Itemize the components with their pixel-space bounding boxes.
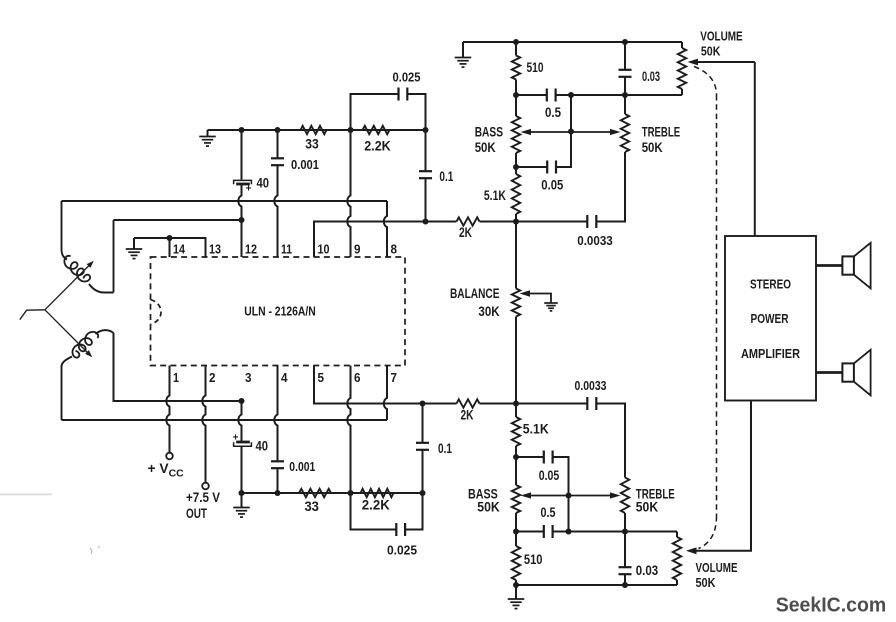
svg-text:30K: 30K	[478, 304, 499, 319]
dashed gang line between volume controls	[694, 67, 717, 96]
svg-text:6: 6	[354, 370, 361, 385]
junction dots bottom bus	[239, 490, 245, 496]
potentiometer BASS 50K (bottom)	[515, 457, 517, 485]
svg-text:2K: 2K	[461, 408, 474, 423]
potentiometer VOLUME 50K (bottom)	[676, 532, 678, 538]
ground bottom tone rail	[515, 585, 517, 599]
wire C: upper coil to pin 8 (left channel input)	[62, 200, 388, 202]
svg-text:1: 1	[173, 370, 179, 385]
speaker SP1 (top)	[816, 264, 843, 267]
ground at pins 13/14	[133, 238, 135, 249]
resistor R3 2K (top)	[457, 217, 480, 225]
svg-text:50K: 50K	[701, 44, 721, 59]
junction dot wiper link / mid column (top)	[568, 129, 574, 135]
svg-text:0.1: 0.1	[439, 169, 453, 184]
balance wiper arrow to ground	[528, 294, 551, 304]
svg-text:0.1: 0.1	[438, 441, 452, 456]
resistor R4 510 (top)	[515, 42, 517, 56]
variable-core arrow through L1	[45, 264, 91, 310]
capacitor C2 0.001 (top channel)	[271, 157, 284, 159]
potentiometer BALANCE 30K	[512, 289, 520, 317]
terminal +7.5V OUT	[202, 483, 209, 490]
pin 1 lead to +Vcc terminal	[166, 366, 169, 453]
wire: y=531.5 rail (bottom tone)	[516, 531, 544, 533]
variable-core arrow through L2	[45, 310, 90, 355]
capacitor C11 0.025 loop (bottom)	[351, 493, 397, 530]
resistor R7 2.2K (bottom)	[361, 489, 394, 497]
ground below pin 3 / bottom bus	[241, 493, 243, 507]
pin 4 lead through 0.001 cap (bottom)	[274, 366, 277, 462]
junction dots top rail	[513, 39, 519, 45]
wire: upper coil to pin8 net (vertical x=113.5 up to wire D)	[113, 220, 115, 293]
svg-text:STEREO: STEREO	[750, 277, 791, 292]
pin 13 stub	[134, 238, 206, 257]
junction dot tone node (bottom)	[513, 401, 519, 407]
inductor L2 (lower tuning coil)	[96, 330, 114, 334]
svg-text:3: 3	[245, 370, 252, 385]
svg-text:ULN - 2126A/N: ULN - 2126A/N	[244, 304, 316, 319]
potentiometer TREBLE 50K (bottom)	[621, 478, 629, 514]
junction dots y531	[513, 529, 519, 535]
svg-text:AMPLIFIER: AMPLIFIER	[741, 346, 801, 361]
svg-text:9: 9	[354, 242, 361, 257]
terminal +Vcc	[166, 453, 173, 460]
svg-text:510: 510	[527, 60, 544, 75]
svg-text:POWER: POWER	[751, 311, 789, 326]
resistor R5 5.1K (top)	[512, 174, 520, 214]
potentiometer BASS 50K (top)	[515, 95, 517, 116]
wire A-right: pin 5 to tone controls (bottom channel)	[314, 366, 457, 404]
junction dot wire E / 0.1 cap	[423, 219, 429, 225]
capacitor C15 0.5 (bottom)	[543, 525, 545, 538]
svg-text:5.1K: 5.1K	[523, 422, 549, 437]
faint scan smudge	[90, 548, 92, 554]
resistor R1 33 (top)	[301, 126, 327, 134]
potentiometer VOLUME 50K (top)	[681, 42, 683, 48]
faint scan streak left edge	[0, 494, 52, 496]
resistor R9 5.1K (bottom)	[515, 404, 517, 418]
pin 3 lead down through 40uF cap to bottom ground bus	[238, 401, 241, 442]
svg-text:+7.5 V: +7.5 V	[186, 490, 221, 505]
resistor R2 2.2K (top)	[363, 126, 390, 134]
svg-text:5: 5	[318, 370, 325, 385]
volume (top) wiper arrow	[692, 61, 755, 63]
svg-text:40: 40	[257, 176, 270, 191]
volume (bottom) wiper arrow from amplifier	[691, 401, 751, 551]
potentiometer TREBLE 50K (top)	[624, 95, 626, 114]
svg-text:33: 33	[304, 499, 319, 514]
svg-text:VOLUME: VOLUME	[696, 560, 738, 575]
junction dot wire D / pin 12	[239, 217, 245, 223]
svg-text:+: +	[246, 184, 252, 195]
resistor R8 2K (bottom)	[457, 399, 480, 407]
inductor L1 (upper tuning coil)	[62, 201, 68, 260]
pin 7 stub to wire B (hop over wire A)	[384, 366, 387, 421]
capacitor C7 0.05 (top)	[546, 161, 548, 174]
junction dots y95	[513, 92, 519, 98]
resistor R10 510 (bottom)	[515, 532, 517, 547]
capacitor C6 0.5 (top)	[546, 89, 548, 102]
wire: input antenna stub	[20, 310, 45, 320]
svg-text:10: 10	[318, 242, 330, 257]
svg-text:8: 8	[391, 242, 398, 257]
top ground bus wire y=130	[208, 129, 426, 131]
svg-text:12: 12	[245, 242, 257, 257]
capacitor C5 0.03 (top)	[624, 42, 626, 70]
junction dot wiper link / mid column (bottom)	[566, 493, 572, 499]
capacitor C9 40uF electrolytic (bottom channel)	[236, 441, 250, 444]
svg-text:0.5: 0.5	[541, 505, 556, 520]
bottom ground bus wire y=493	[242, 492, 423, 494]
resistor R6 33 (bottom)	[299, 489, 331, 497]
wire: 2K to bass node (bottom)	[480, 403, 517, 405]
capacitor C1 40uF electrolytic (top channel)	[234, 180, 252, 184]
svg-text:4: 4	[281, 370, 288, 385]
svg-text:50K: 50K	[696, 575, 717, 590]
svg-text:33: 33	[305, 137, 319, 152]
wire D: upper coil lower end to pin 12	[114, 219, 242, 221]
capacitor C3 0.025 loop (top)	[351, 94, 399, 130]
mid column (top): 0.5/0.05 junction vertical	[556, 95, 571, 167]
junction dots on top ground bus	[239, 127, 245, 133]
junction dots bottom rail	[513, 582, 519, 588]
svg-text:+: +	[233, 433, 239, 444]
junction dot wire A-left / pin 3	[239, 398, 245, 404]
block: STEREO POWER AMPLIFIER	[725, 236, 816, 401]
svg-text:50K: 50K	[475, 140, 496, 155]
svg-text:11: 11	[281, 242, 292, 257]
svg-text:0.001: 0.001	[289, 459, 315, 474]
svg-text:OUT: OUT	[186, 506, 207, 521]
svg-text:+ VCC: + VCC	[148, 461, 185, 480]
svg-text:SeekIC.com: SeekIC.com	[776, 595, 887, 617]
svg-text:0.0033: 0.0033	[575, 378, 607, 393]
wire E: pin 10 to tone controls (top channel)	[314, 222, 457, 258]
svg-text:BASS: BASS	[475, 125, 503, 140]
wire: lower coil bottom to wire B vertical	[61, 365, 63, 420]
capacitor C14 0.05 (bottom)	[516, 456, 544, 458]
bass-treble wiper link (bottom) with arrows	[528, 495, 613, 497]
svg-text:7: 7	[391, 370, 398, 385]
svg-text:5.1K: 5.1K	[484, 188, 506, 203]
pin 11 lead with hop over wire C and 0.001 cap (top)	[274, 165, 277, 257]
junction dot wire A-right / 0.1 cap	[420, 401, 426, 407]
svg-text:0.0033: 0.0033	[577, 233, 613, 248]
svg-text:2K: 2K	[459, 225, 472, 240]
svg-text:0.001: 0.001	[291, 157, 319, 172]
svg-text:50K: 50K	[477, 500, 499, 515]
pin 6 lead down to bottom bus	[347, 366, 350, 494]
wire B: lower coil to pin 7 (right channel input)	[62, 419, 388, 421]
svg-text:2.2K: 2.2K	[362, 498, 390, 513]
wire: balance column	[515, 222, 517, 289]
wire: 2K to bass node (top)	[480, 221, 517, 223]
junction dot bass/0.05 (bottom)	[513, 454, 519, 460]
svg-text:0.5: 0.5	[545, 105, 561, 120]
pin 9 lead up through wire E and wire C to top bus	[347, 130, 350, 257]
junction dot tone node (top)	[513, 219, 519, 225]
pin 14 stub	[169, 238, 171, 257]
svg-text:0.025: 0.025	[393, 70, 421, 85]
svg-text:0.05: 0.05	[541, 178, 563, 193]
wire: bottom rail y=585	[516, 584, 677, 586]
svg-text:BALANCE: BALANCE	[450, 286, 500, 301]
IC U1 left-edge notch	[151, 300, 162, 325]
svg-text:50K: 50K	[642, 140, 663, 155]
capacitor C16 0.03 (bottom)	[624, 532, 626, 568]
junction dot pin14/ground wire	[167, 235, 173, 241]
capacitor C12 0.1 (bottom)	[422, 404, 424, 443]
pin 2 lead to +7.5V OUT terminal	[202, 366, 205, 483]
svg-text:50K: 50K	[636, 500, 658, 515]
svg-text:14: 14	[173, 242, 186, 257]
pin 12 lead with hop over wire C, 40uF cap, to ground bus	[238, 185, 241, 258]
capacitor C8 0.0033 (top)	[516, 221, 587, 223]
svg-text:2: 2	[209, 370, 216, 385]
svg-text:TREBLE: TREBLE	[642, 125, 681, 140]
svg-text:40: 40	[256, 439, 269, 454]
svg-text:0.03: 0.03	[636, 563, 659, 578]
ground top tone rail	[455, 57, 472, 59]
capacitor C13 0.0033 (bottom)	[516, 403, 587, 405]
wire: top volume wiper to amplifier	[754, 62, 756, 236]
ground on top bus	[207, 130, 209, 136]
capacitor C10 0.001 (bottom channel)	[271, 460, 284, 462]
svg-text:0.03: 0.03	[642, 69, 660, 84]
wire: y=95 rail (top tone)	[516, 94, 547, 96]
pin 8 stub from wire C (hop over wire E)	[384, 201, 387, 257]
wire: top rail y=42 with ground	[463, 41, 682, 43]
svg-text:2.2K: 2.2K	[364, 139, 391, 154]
speaker SP2 (bottom)	[816, 371, 843, 374]
capacitor C4 0.1 (top) between top bus and wire E	[425, 130, 427, 171]
svg-text:510: 510	[524, 552, 543, 567]
wire A-left: lower coil upper end to pin 3	[114, 333, 242, 401]
svg-text:13: 13	[209, 242, 221, 257]
IC U1 ULN-2126A/N dashed outline	[151, 257, 406, 366]
svg-text:0.05: 0.05	[539, 468, 560, 483]
svg-text:0.025: 0.025	[387, 543, 417, 558]
junction dot bass/0.05 (top)	[513, 164, 519, 170]
bass-treble wiper link (top) with arrows	[528, 131, 613, 133]
svg-text:VOLUME: VOLUME	[700, 29, 743, 44]
